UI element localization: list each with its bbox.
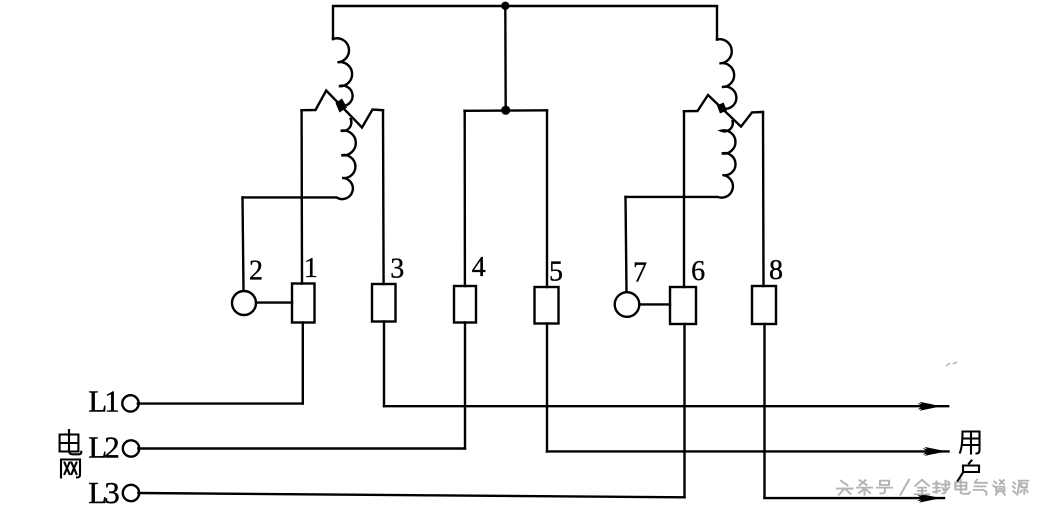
source circle L3 xyxy=(123,485,139,501)
svg-text:2: 2 xyxy=(249,256,263,287)
terminal block 1 xyxy=(292,284,315,323)
terminal circle 7 xyxy=(615,292,640,317)
coil: left lower (current coil) xyxy=(243,119,356,199)
watermark glyph dian2 xyxy=(955,480,969,494)
wire: terminal 3 down to L1 right xyxy=(383,322,385,407)
watermark glyph qiu xyxy=(934,481,950,494)
wire: vertical from top bus to middle node xyxy=(504,6,507,110)
arrowhead L1 xyxy=(920,402,942,411)
wire: L2 right segment to user xyxy=(547,450,949,452)
wire: terminal 1 down to L1 xyxy=(302,323,304,404)
wire: terminal 5 down to L2 right xyxy=(546,324,548,452)
svg-text:L1: L1 xyxy=(88,384,120,419)
wire: L3 left segment xyxy=(138,493,684,497)
watermark glyph tou xyxy=(837,481,853,495)
terminal block 6 xyxy=(670,287,696,324)
wire: down to circle 7 xyxy=(626,197,627,291)
terminal block 8 xyxy=(752,286,776,324)
wire: L3 right segment to user xyxy=(765,497,945,499)
watermark glyph hao xyxy=(877,481,892,494)
terminal block 4 xyxy=(454,286,476,323)
wire: circle 2 to terminal 1 xyxy=(256,301,292,303)
source circle L1 xyxy=(122,395,138,411)
svg-text:6: 6 xyxy=(691,256,705,287)
svg-text:5: 5 xyxy=(549,257,563,288)
terminal circle 2 xyxy=(232,291,256,315)
wire: L1 right segment to user xyxy=(384,405,948,407)
coil: right upper (voltage coil) xyxy=(717,39,736,109)
label yong (use) of yonghu xyxy=(960,432,980,454)
terminal block 3 xyxy=(372,284,396,322)
svg-text:1: 1 xyxy=(304,253,318,284)
watermark glyph yuan xyxy=(1013,481,1029,495)
wire: L1 left segment xyxy=(138,402,303,404)
svg-text:8: 8 xyxy=(769,255,783,286)
wire: middle U horizontal (terminals 4-5 voltage link) xyxy=(465,109,548,112)
watermark glyph zi xyxy=(993,480,1005,495)
zigzag core link left element xyxy=(302,91,384,128)
wire: U to terminal 4 xyxy=(464,111,467,286)
watermark glyph tiao xyxy=(857,480,872,495)
wire: zigzag to terminal 8 xyxy=(762,112,765,286)
arrowhead L3 xyxy=(919,494,941,503)
wire: circle 7 to terminal 6 xyxy=(639,303,670,305)
junction dot middle node xyxy=(501,106,510,115)
source circle L2 xyxy=(123,440,139,456)
arrowhead blob on right zigzag xyxy=(717,103,727,114)
label hu (household) of yonghu xyxy=(957,461,979,483)
wire: U to terminal 5 xyxy=(546,110,548,287)
svg-text:3: 3 xyxy=(390,254,404,285)
junction dot top bus xyxy=(501,2,509,10)
terminal block 5 xyxy=(535,287,559,324)
coil: right lower (current coil) xyxy=(626,121,736,198)
top bus wire xyxy=(333,6,717,40)
label dian (electric) of dianwang xyxy=(60,430,82,454)
watermark glyph qi xyxy=(974,480,987,495)
wire: terminal 6 down to L3 left xyxy=(683,324,685,497)
wire: terminal 8 down to L3 right xyxy=(763,324,765,498)
label wang (grid) of dianwang xyxy=(61,460,80,478)
coil: left upper (voltage coil) xyxy=(333,38,353,106)
wire: down to circle 2 xyxy=(243,197,244,290)
wire: zigzag to terminal 6 xyxy=(683,111,685,287)
svg-text:4: 4 xyxy=(472,252,486,283)
wire: zigzag to terminal 1 xyxy=(300,110,303,283)
svg-text:L3: L3 xyxy=(88,475,120,507)
wire: terminal 4 down to L2 left xyxy=(464,323,466,449)
svg-text:L2: L2 xyxy=(88,429,120,464)
wire: zigzag to terminal 3 xyxy=(382,110,385,284)
watermark glyph quan xyxy=(915,480,929,495)
scan artifact marks xyxy=(946,362,957,366)
arrowhead L2 xyxy=(925,447,947,456)
arrowhead blob on left zigzag xyxy=(336,99,348,113)
watermark glyph slash xyxy=(901,480,910,495)
svg-text:7: 7 xyxy=(633,258,647,289)
wire: L2 left segment xyxy=(138,447,465,449)
zigzag core link right element xyxy=(684,95,763,127)
